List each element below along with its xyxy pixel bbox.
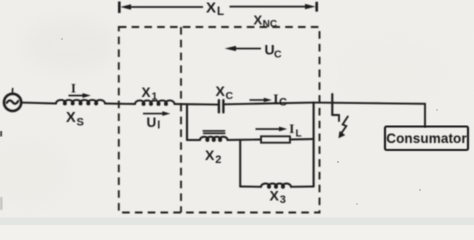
voltage arrow UC (points left) [234,48,261,50]
svg-text:NC: NC [263,19,277,30]
svg-text:X: X [66,110,76,126]
svg-text:X: X [142,85,151,100]
svg-text:X: X [216,83,226,99]
fault arrow bolt [341,117,348,134]
iron core of X2 [203,130,224,132]
svg-text:2: 2 [215,154,221,166]
svg-text:U: U [147,115,157,130]
wire to X2 [187,139,200,141]
wire to switch and load corner [314,103,425,127]
dashed boundary box XL [119,27,320,213]
wire source to XS [21,102,56,105]
wire resistor to right vertical [290,138,314,141]
svg-text:X: X [254,13,263,28]
wire to X3 [240,186,261,188]
wire X1 to XC [175,103,219,106]
wire X2 to resistor node [228,139,262,142]
wire right vertical [313,103,315,187]
inductor X1 [135,100,174,105]
inductor XS [56,100,105,105]
svg-text:1: 1 [152,91,158,103]
fault arrow head [338,131,345,138]
svg-text:X: X [206,0,216,16]
dimension line XL [118,2,121,14]
node junction after X1 [186,104,188,140]
dashed divider [180,27,182,213]
svg-text:I: I [289,121,294,136]
svg-text:C: C [226,90,234,102]
svg-text:S: S [77,116,84,128]
svg-text:3: 3 [280,194,286,206]
inductor X2 [200,137,227,141]
current arrow IC [250,99,266,101]
voltage arrow U1 [143,113,163,115]
svg-text:X: X [270,187,280,203]
bottom scan margin band [0,218,474,226]
svg-text:Consumator: Consumator [386,131,467,146]
inductor X3 [261,183,291,187]
svg-text:I: I [273,91,278,106]
current arrow IL [256,128,280,130]
svg-text:C: C [279,96,287,108]
svg-text:L: L [217,6,224,18]
AC source G [4,94,21,111]
left edge smudge [0,131,2,137]
resistor R [261,136,290,142]
svg-text:l: l [157,120,160,132]
wire down to X3 branch [239,140,241,187]
current arrow I [69,95,84,97]
svg-text:C: C [274,49,282,61]
paper mottling [0,20,438,202]
capacitor XC [218,100,220,112]
svg-text:L: L [296,128,302,139]
svg-text:X: X [205,147,215,163]
wire XS to X1 [105,103,135,106]
wire XC to right [224,103,314,105]
load box Consumator [385,127,468,151]
svg-text:I: I [71,81,76,95]
wire X3 to right vertical [291,186,314,188]
fault switch bar [331,94,333,115]
